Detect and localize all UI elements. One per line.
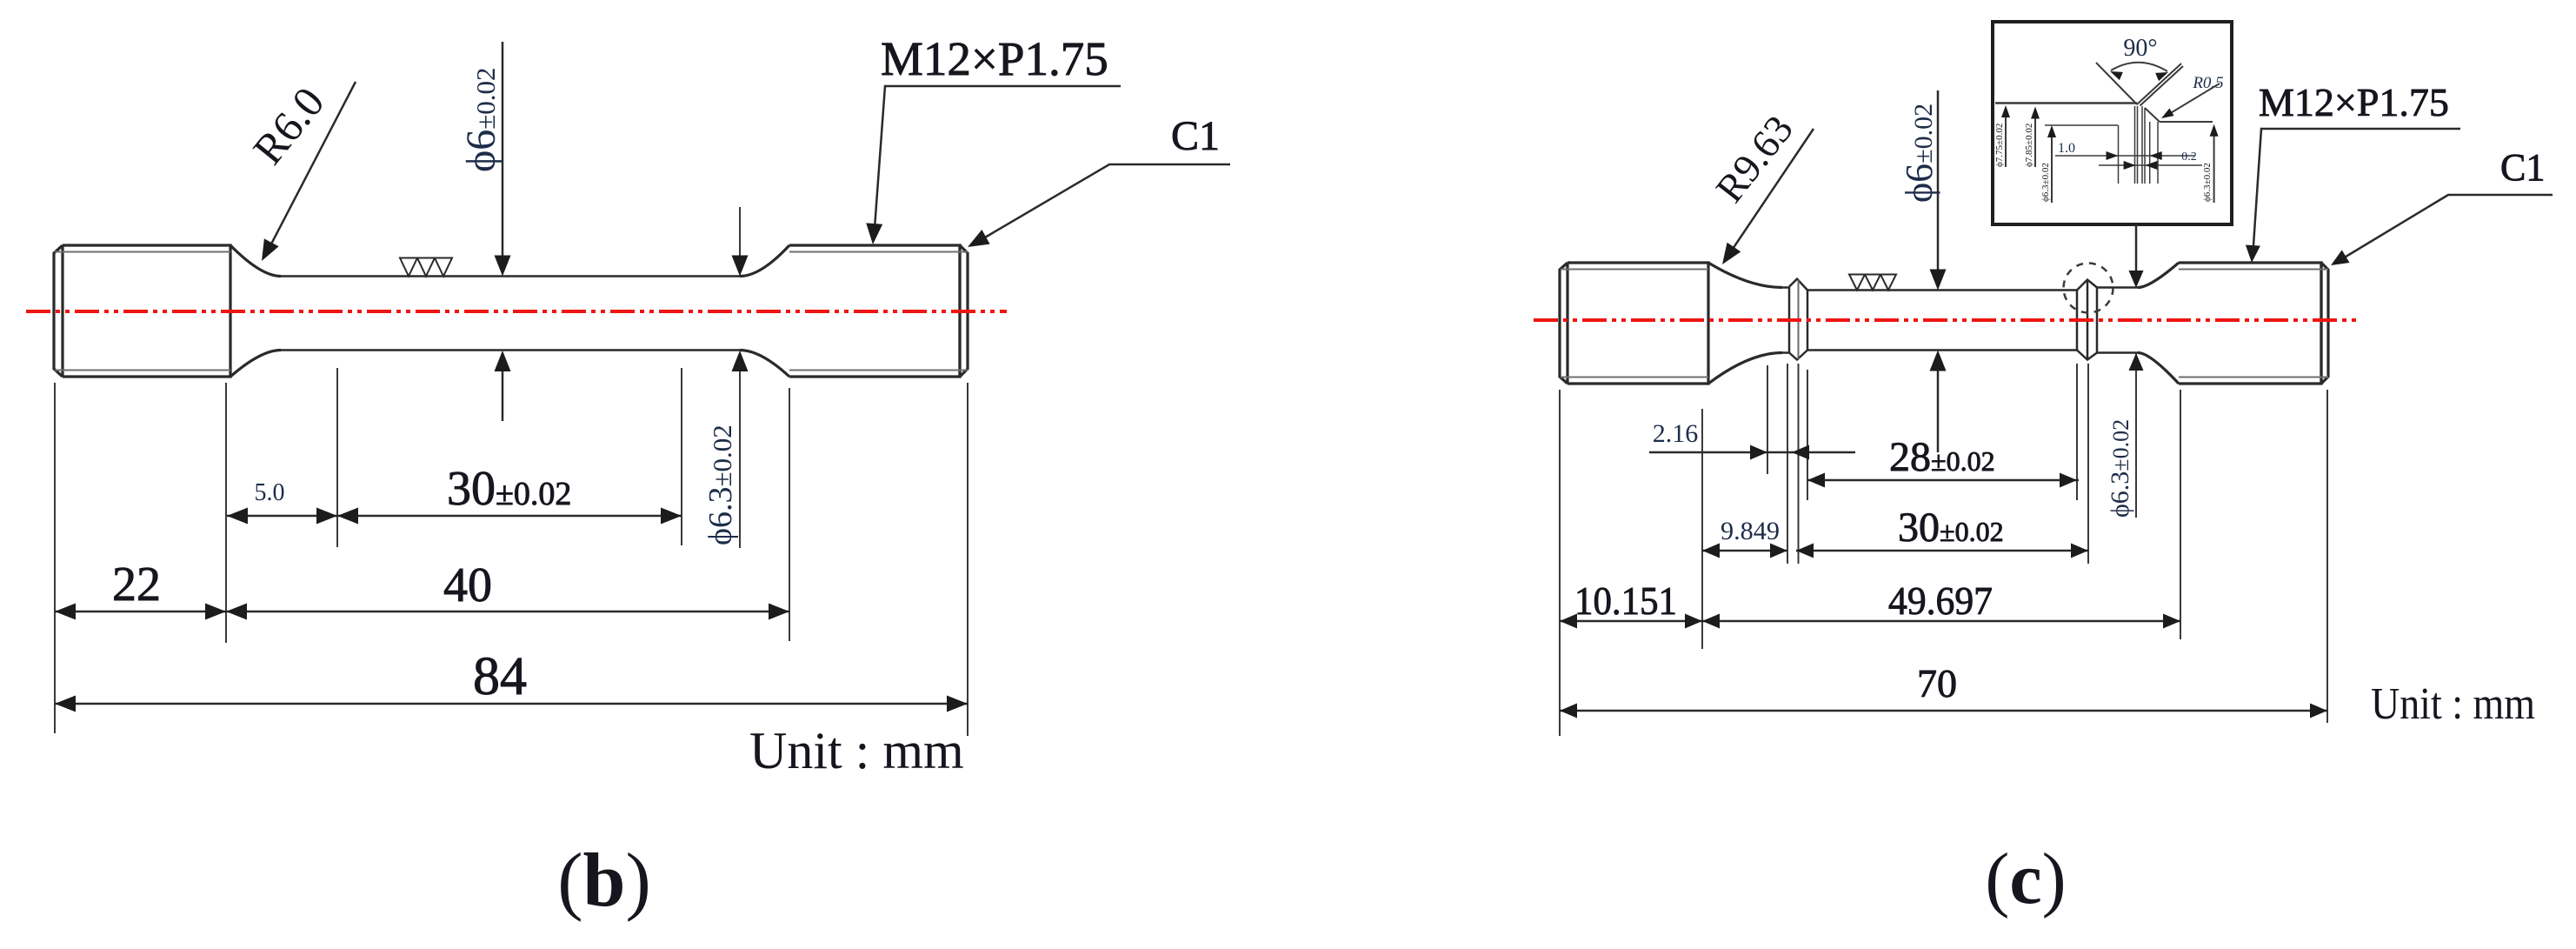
dimension 70 c xyxy=(1560,710,2327,712)
inset leader R0.5 xyxy=(2165,84,2220,117)
dimension 2.16 c xyxy=(1649,451,1855,454)
svg-text:ϕ6.3±0.02: ϕ6.3±0.02 xyxy=(2106,419,2134,518)
surface finish symbol c xyxy=(1849,275,1896,291)
extension lines b xyxy=(55,368,968,736)
svg-text:ϕ6.3±0.02: ϕ6.3±0.02 xyxy=(702,424,739,545)
specimen b: right grip thread minor lines xyxy=(789,252,968,371)
leader R9.63 c xyxy=(1726,129,1814,259)
svg-text:Unit : mm: Unit : mm xyxy=(2371,679,2535,729)
specimen c: right collar ring with notch xyxy=(2077,280,2097,360)
dimension 30+-0.02 c xyxy=(1796,550,2088,552)
leader M12 b xyxy=(874,86,1121,240)
label phi6.3+-0.02 b rotated xyxy=(702,424,739,545)
inset box frame xyxy=(1993,22,2232,224)
dimension phi6 c vertical line xyxy=(1937,90,1940,452)
leader R6.0 b xyxy=(265,82,356,256)
inset up arrows with rotated labels xyxy=(2006,108,2214,203)
specimen b: gauge section lines xyxy=(281,275,740,277)
dimension 22 b xyxy=(55,611,226,613)
specimen c: left grip outline xyxy=(1560,263,1708,384)
specimen c: left fillet xyxy=(1708,263,1782,288)
inset groove walls xyxy=(2119,106,2159,184)
svg-text:49.697: 49.697 xyxy=(1888,578,1993,623)
dimension phi6.3 b vertical xyxy=(739,207,741,548)
detail circle c xyxy=(2064,264,2113,313)
dimension 9.849 c xyxy=(1702,550,1787,552)
svg-text:C1: C1 xyxy=(2500,146,2545,189)
specimen c: left collar ring xyxy=(1789,279,1807,360)
svg-text:M12×P1.75: M12×P1.75 xyxy=(881,32,1108,85)
centerline c xyxy=(1534,318,2359,322)
dimension 10.151 c xyxy=(1560,620,1702,623)
svg-text:1.0: 1.0 xyxy=(2058,141,2075,156)
inset level lines xyxy=(2045,124,2118,126)
specimen b: right fillet xyxy=(740,245,789,277)
inset V notch slopes xyxy=(2096,63,2183,122)
label phi6.3+-0.02 c rotated xyxy=(2106,419,2134,518)
specimen c: gauge end edge xyxy=(2076,291,2079,351)
inset angle arc xyxy=(2111,63,2167,71)
svg-text:M12×P1.75: M12×P1.75 xyxy=(2259,80,2449,124)
svg-text:9.849: 9.849 xyxy=(1721,517,1780,545)
leader C1 c xyxy=(2334,195,2553,264)
dimension 28+-0.02 c xyxy=(1807,479,2079,482)
svg-text:5.0: 5.0 xyxy=(255,479,285,506)
svg-text:10.151: 10.151 xyxy=(1574,578,1677,623)
svg-text:C1: C1 xyxy=(1171,113,1220,159)
specimen c: right grip thread minor lines xyxy=(2179,270,2328,378)
svg-text:ϕ7.75±0.02: ϕ7.75±0.02 xyxy=(1994,124,2005,167)
inset connector line to phi6.3 xyxy=(2135,224,2138,284)
specimen c: right fillet xyxy=(2138,263,2179,288)
centerline b xyxy=(26,310,1007,313)
svg-text:22: 22 xyxy=(112,558,161,612)
dimension 84 b xyxy=(55,703,968,705)
svg-text:(c): (c) xyxy=(1985,839,2066,919)
specimen c: left grip thread minor lines xyxy=(1561,270,1708,378)
extension lines c xyxy=(1560,364,2327,736)
label phi6+-0.02 c rotated xyxy=(1898,104,1940,203)
surface finish symbol b xyxy=(400,258,452,277)
specimen c: gauge start edge xyxy=(1807,291,1809,351)
svg-text:(b): (b) xyxy=(557,839,651,923)
svg-text:40: 40 xyxy=(443,558,492,612)
specimen c: right neck flat xyxy=(2097,286,2138,289)
inset surface lines xyxy=(1995,102,2137,104)
leader C1 b xyxy=(975,164,1230,244)
specimen c: gauge section lines xyxy=(1807,289,2077,291)
dimension phi6.3 c vertical xyxy=(2135,353,2137,518)
specimen b: left fillet xyxy=(230,245,281,277)
svg-text:ϕ6.3±0.02: ϕ6.3±0.02 xyxy=(2040,163,2051,202)
svg-text:ϕ6.3±0.02: ϕ6.3±0.02 xyxy=(2202,163,2213,202)
label phi6+-0.02 b rotated xyxy=(458,67,504,172)
specimen c: right grip outline xyxy=(2179,263,2328,384)
dimension 40 b xyxy=(226,611,789,613)
svg-text:ϕ7.85±0.02: ϕ7.85±0.02 xyxy=(2024,124,2034,167)
svg-text:84: 84 xyxy=(473,647,527,706)
dimension 30+-0.02 b xyxy=(337,515,682,518)
dimension 5.0 b xyxy=(227,515,337,518)
specimen b: left grip outline xyxy=(54,245,230,377)
specimen c: left neck flat xyxy=(1782,286,1789,289)
svg-text:Unit : mm: Unit : mm xyxy=(749,722,964,779)
specimen b: right grip outline xyxy=(789,245,968,377)
svg-text:0.2: 0.2 xyxy=(2181,150,2197,164)
leader M12 c xyxy=(2253,129,2460,258)
svg-text:2.16: 2.16 xyxy=(1653,419,1699,448)
specimen b: left grip thread minor lines xyxy=(55,252,230,371)
svg-text:90°: 90° xyxy=(2123,35,2157,62)
dimension 49.697 c xyxy=(1702,620,2180,623)
svg-text:70: 70 xyxy=(1917,661,1957,705)
dimension phi6 b vertical line xyxy=(502,42,504,421)
